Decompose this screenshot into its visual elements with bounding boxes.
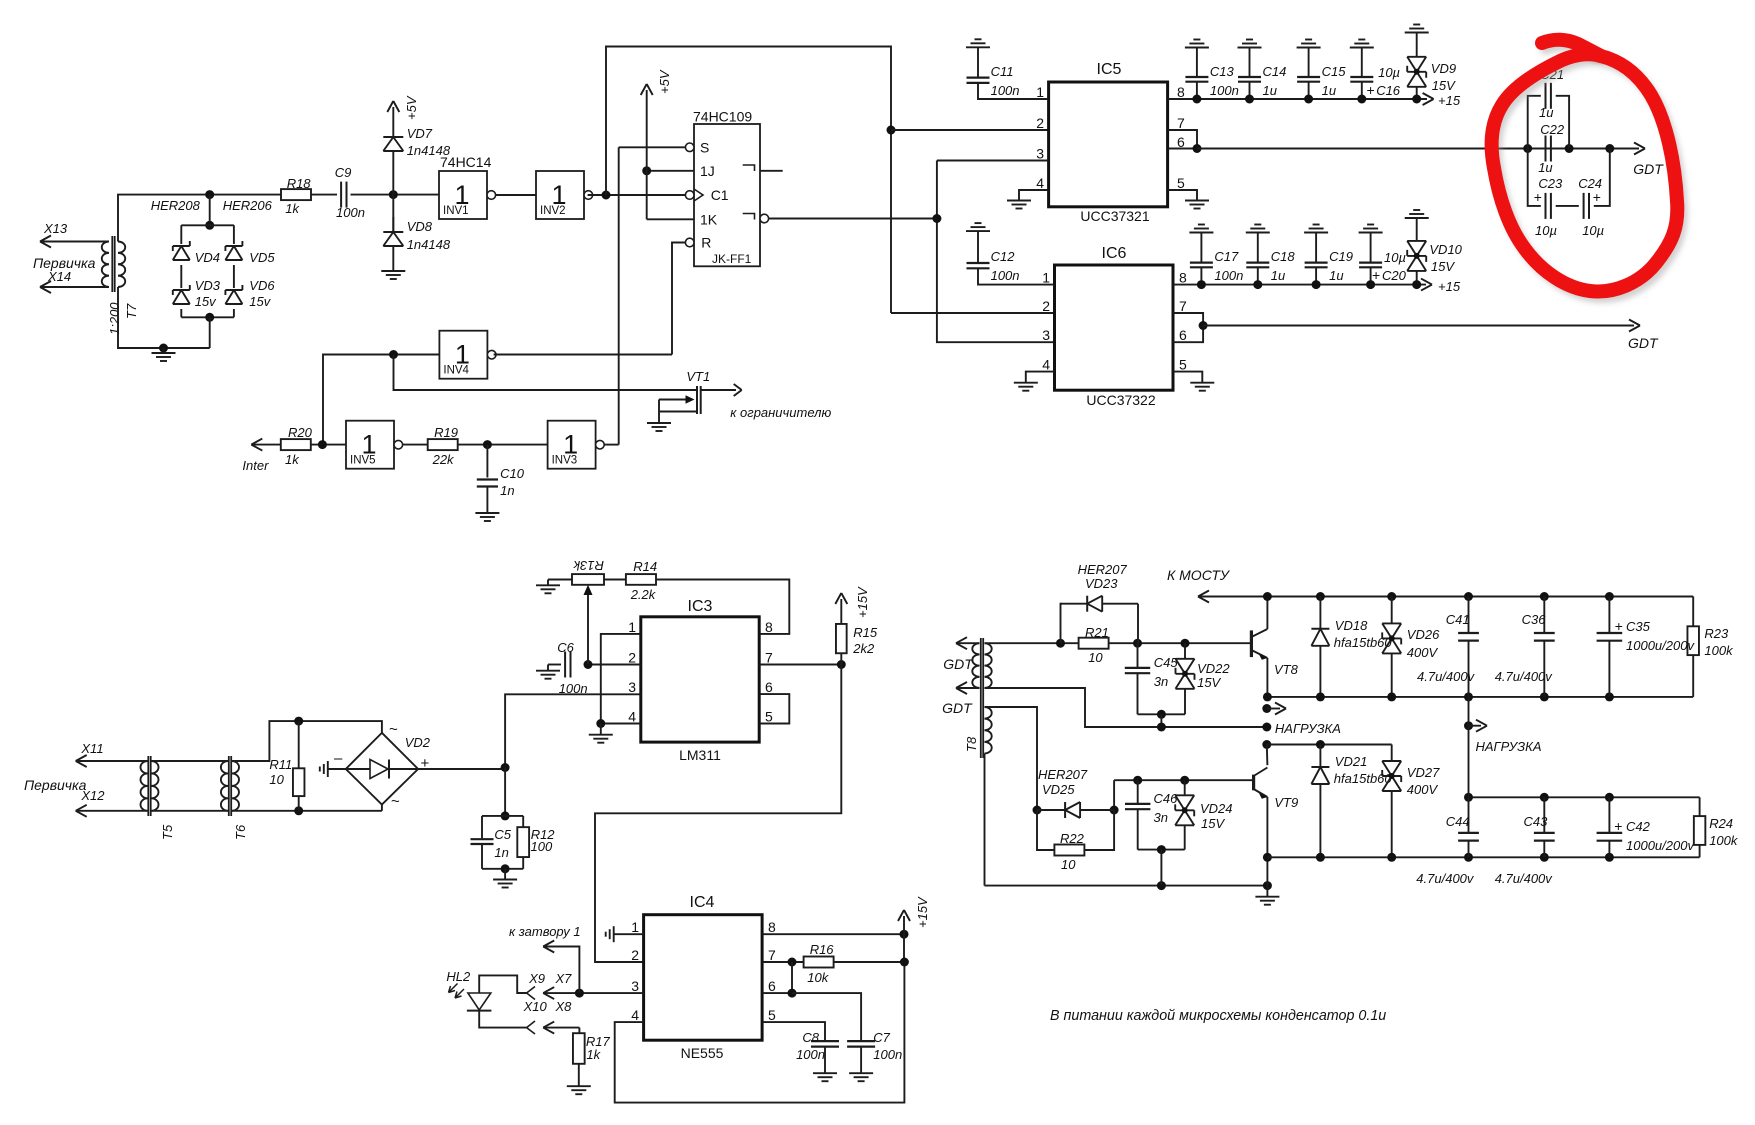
svg-text:INV4: INV4: [443, 365, 469, 377]
svg-text:400V: 400V: [1407, 645, 1439, 660]
svg-text:10µ: 10µ: [1384, 250, 1406, 265]
svg-text:C46: C46: [1154, 791, 1179, 806]
svg-text:T8: T8: [964, 736, 979, 752]
svg-text:+: +: [1614, 818, 1622, 834]
svg-text:1: 1: [1042, 270, 1050, 286]
svg-text:10k: 10k: [807, 970, 829, 985]
svg-text:C45: C45: [1154, 655, 1179, 670]
svg-text:R14: R14: [633, 559, 657, 574]
svg-text:6: 6: [768, 978, 776, 994]
svg-text:1: 1: [628, 619, 636, 635]
svg-text:100k: 100k: [1709, 833, 1739, 848]
svg-text:100: 100: [531, 839, 553, 854]
svg-text:22k: 22k: [432, 452, 455, 467]
svg-text:4: 4: [631, 1007, 639, 1023]
svg-text:VD27: VD27: [1407, 765, 1440, 780]
svg-text:400V: 400V: [1407, 782, 1439, 797]
svg-text:C15: C15: [1322, 64, 1347, 79]
svg-text:+: +: [1534, 189, 1542, 205]
svg-text:8: 8: [1177, 84, 1185, 100]
svg-text:7: 7: [765, 650, 773, 666]
svg-text:R11: R11: [269, 757, 292, 772]
svg-text:R16: R16: [810, 942, 835, 957]
svg-text:10: 10: [269, 772, 284, 787]
svg-text:C10: C10: [500, 466, 525, 481]
svg-text:3: 3: [631, 978, 639, 994]
svg-text:+: +: [1372, 267, 1380, 283]
svg-text:VD18: VD18: [1335, 618, 1368, 633]
svg-text:к затвору 1: к затвору 1: [509, 924, 581, 939]
svg-text:1u: 1u: [1329, 268, 1343, 283]
svg-text:S: S: [700, 139, 709, 155]
svg-text:VD23: VD23: [1085, 576, 1118, 591]
svg-text:1u: 1u: [1539, 105, 1553, 120]
svg-text:VD4: VD4: [195, 250, 220, 265]
svg-text:1000u/200v: 1000u/200v: [1626, 638, 1695, 653]
svg-text:X13: X13: [43, 221, 68, 236]
svg-text:VT9: VT9: [1274, 795, 1298, 810]
svg-text:1u: 1u: [1538, 160, 1552, 175]
svg-text:1u: 1u: [1322, 83, 1336, 98]
svg-text:–: –: [334, 750, 343, 767]
svg-text:R24: R24: [1709, 816, 1733, 831]
svg-text:VD2: VD2: [405, 735, 431, 750]
svg-text:VD10: VD10: [1429, 242, 1462, 257]
svg-text:2: 2: [631, 947, 639, 963]
svg-text:IC6: IC6: [1102, 245, 1127, 262]
svg-text:100n: 100n: [991, 268, 1020, 283]
svg-text:3n: 3n: [1154, 674, 1168, 689]
svg-text:2: 2: [1036, 115, 1044, 131]
svg-text:hfa15tb60: hfa15tb60: [1334, 771, 1393, 786]
svg-text:VD3: VD3: [195, 278, 221, 293]
svg-text:к ограничителю: к ограничителю: [730, 405, 831, 420]
svg-text:C42: C42: [1626, 819, 1651, 834]
svg-text:+15: +15: [1438, 93, 1461, 108]
svg-text:C35: C35: [1626, 619, 1651, 634]
svg-text:3: 3: [1042, 327, 1050, 343]
svg-text:+: +: [1615, 618, 1623, 634]
svg-text:R: R: [701, 235, 711, 251]
svg-text:7: 7: [768, 947, 776, 963]
svg-text:C11: C11: [991, 64, 1014, 79]
svg-text:INV3: INV3: [552, 455, 578, 467]
svg-text:10: 10: [1061, 857, 1076, 872]
svg-text:HER207: HER207: [1078, 562, 1128, 577]
svg-text:7: 7: [1179, 298, 1187, 314]
svg-text:C36: C36: [1522, 612, 1547, 627]
svg-text:4: 4: [1042, 357, 1050, 373]
svg-text:100n: 100n: [873, 1047, 902, 1062]
svg-text:3n: 3n: [1154, 810, 1168, 825]
svg-text:100n: 100n: [991, 83, 1020, 98]
svg-text:X12: X12: [80, 788, 105, 803]
svg-text:VD7: VD7: [407, 126, 433, 141]
svg-text:JK-FF1: JK-FF1: [712, 252, 752, 266]
svg-text:C44: C44: [1446, 814, 1470, 829]
svg-text:HER208: HER208: [151, 198, 201, 213]
svg-text:HL2: HL2: [446, 969, 471, 984]
svg-text:C7: C7: [873, 1030, 890, 1045]
svg-text:T5: T5: [160, 824, 175, 840]
svg-text:15V: 15V: [1201, 816, 1225, 831]
svg-text:+15V: +15V: [855, 586, 870, 618]
svg-text:+5V: +5V: [404, 95, 419, 120]
svg-text:3: 3: [628, 679, 636, 695]
svg-text:2: 2: [628, 650, 636, 666]
svg-text:C22: C22: [1540, 122, 1565, 137]
svg-text:C9: C9: [335, 165, 352, 180]
svg-text:X8: X8: [555, 999, 573, 1014]
svg-text:1000u/200v: 1000u/200v: [1626, 838, 1695, 853]
svg-text:C13: C13: [1210, 64, 1235, 79]
svg-text:1u: 1u: [1263, 83, 1277, 98]
svg-text:+15: +15: [1438, 279, 1461, 294]
svg-text:UCC37321: UCC37321: [1080, 208, 1149, 224]
svg-text:74HC109: 74HC109: [693, 109, 752, 125]
svg-text:X7: X7: [555, 971, 573, 986]
svg-text:НАГРУЗКА: НАГРУЗКА: [1476, 739, 1542, 754]
svg-text:C1: C1: [711, 187, 729, 203]
svg-text:НАГРУЗКА: НАГРУЗКА: [1275, 721, 1341, 736]
svg-text:+: +: [1367, 82, 1375, 98]
svg-text:VD6: VD6: [249, 278, 275, 293]
svg-text:HER206: HER206: [223, 198, 273, 213]
svg-text:Первичка: Первичка: [24, 777, 87, 793]
svg-text:C41: C41: [1446, 612, 1470, 627]
svg-text:2.2k: 2.2k: [630, 587, 657, 602]
svg-text:R21: R21: [1085, 625, 1109, 640]
svg-text:C14: C14: [1263, 64, 1287, 79]
svg-text:6: 6: [765, 679, 773, 695]
svg-text:1J: 1J: [700, 163, 715, 179]
svg-text:4.7u/400v: 4.7u/400v: [1495, 669, 1554, 684]
svg-text:T7: T7: [124, 303, 139, 319]
svg-text:15V: 15V: [1432, 78, 1456, 93]
svg-text:C18: C18: [1271, 249, 1296, 264]
svg-text:Inter: Inter: [242, 458, 269, 473]
svg-text:VD5: VD5: [249, 250, 275, 265]
svg-text:2: 2: [1042, 298, 1050, 314]
svg-text:IC4: IC4: [690, 894, 715, 911]
svg-text:8: 8: [1179, 270, 1187, 286]
svg-text:100n: 100n: [336, 205, 365, 220]
svg-text:INV2: INV2: [540, 205, 566, 217]
svg-text:GDT: GDT: [1628, 335, 1659, 351]
svg-text:X9: X9: [528, 971, 545, 986]
svg-text:В питании каждой микросхемы ко: В питании каждой микросхемы конденсатор …: [1050, 1008, 1386, 1024]
svg-text:R13k: R13k: [572, 558, 604, 573]
svg-text:HER207: HER207: [1038, 767, 1088, 782]
svg-text:R22: R22: [1060, 831, 1085, 846]
svg-text:1u: 1u: [1271, 268, 1285, 283]
svg-text:C43: C43: [1524, 814, 1549, 829]
svg-text:+15V: +15V: [915, 896, 930, 928]
svg-text:C20: C20: [1382, 268, 1407, 283]
svg-text:~: ~: [389, 721, 398, 738]
svg-text:hfa15tb60: hfa15tb60: [1334, 635, 1393, 650]
svg-text:100k: 100k: [1704, 643, 1734, 658]
svg-text:15v: 15v: [249, 294, 271, 309]
svg-text:8: 8: [765, 619, 773, 635]
svg-text:C16: C16: [1376, 83, 1401, 98]
svg-text:1n4148: 1n4148: [407, 237, 451, 252]
svg-text:100n: 100n: [1210, 83, 1239, 98]
svg-text:+: +: [1593, 189, 1601, 205]
svg-text:INV5: INV5: [350, 455, 376, 467]
svg-text:GDT: GDT: [943, 656, 974, 672]
svg-text:IC5: IC5: [1097, 61, 1122, 78]
svg-text:10µ: 10µ: [1378, 65, 1400, 80]
svg-text:15v: 15v: [195, 294, 217, 309]
svg-text:INV1: INV1: [443, 205, 469, 217]
svg-text:X11: X11: [80, 741, 103, 756]
svg-text:7: 7: [1177, 115, 1185, 131]
svg-text:4.7u/400v: 4.7u/400v: [1495, 871, 1554, 886]
svg-text:1n: 1n: [500, 483, 514, 498]
svg-text:R23: R23: [1704, 626, 1729, 641]
svg-text:C23: C23: [1538, 176, 1563, 191]
svg-text:100n: 100n: [796, 1047, 825, 1062]
svg-text:3: 3: [1036, 146, 1044, 162]
svg-text:15V: 15V: [1197, 675, 1221, 690]
svg-text:X10: X10: [523, 999, 548, 1014]
svg-text:15V: 15V: [1431, 259, 1455, 274]
svg-text:GDT: GDT: [1633, 161, 1664, 177]
svg-text:5: 5: [765, 709, 773, 725]
svg-text:R19: R19: [434, 425, 458, 440]
svg-text:C8: C8: [802, 1030, 819, 1045]
svg-text:5: 5: [1179, 357, 1187, 373]
svg-text:4.7u/400v: 4.7u/400v: [1416, 871, 1475, 886]
svg-text:VD22: VD22: [1197, 661, 1230, 676]
svg-text:T6: T6: [233, 824, 248, 840]
svg-text:4: 4: [628, 709, 636, 725]
svg-text:LM311: LM311: [679, 747, 721, 763]
svg-text:+5V: +5V: [657, 69, 672, 94]
svg-text:C6: C6: [557, 640, 574, 655]
svg-text:1: 1: [631, 919, 639, 935]
svg-text:8: 8: [768, 919, 776, 935]
svg-text:C19: C19: [1329, 249, 1353, 264]
svg-text:NE555: NE555: [681, 1045, 724, 1061]
svg-text:VD26: VD26: [1407, 627, 1440, 642]
svg-text:X14: X14: [47, 269, 71, 284]
svg-text:10: 10: [1088, 650, 1103, 665]
svg-text:R20: R20: [288, 425, 313, 440]
svg-text:C12: C12: [991, 249, 1016, 264]
svg-text:1:200: 1:200: [107, 302, 122, 335]
svg-text:UCC37322: UCC37322: [1086, 392, 1155, 408]
svg-text:VT8: VT8: [1274, 662, 1299, 677]
svg-text:C5: C5: [494, 827, 511, 842]
svg-text:74HC14: 74HC14: [440, 154, 492, 170]
svg-text:10µ: 10µ: [1582, 223, 1604, 238]
svg-text:~: ~: [391, 793, 400, 810]
svg-text:1k: 1k: [285, 201, 300, 216]
svg-text:1k: 1k: [586, 1047, 601, 1062]
svg-text:5: 5: [1177, 175, 1185, 191]
svg-text:GDT: GDT: [942, 700, 973, 716]
svg-text:5: 5: [768, 1007, 776, 1023]
svg-text:4.7u/400v: 4.7u/400v: [1417, 669, 1476, 684]
svg-text:VD24: VD24: [1200, 801, 1233, 816]
svg-text:VT1: VT1: [686, 369, 710, 384]
svg-text:VD8: VD8: [407, 219, 433, 234]
svg-text:1k: 1k: [285, 452, 300, 467]
svg-text:1K: 1K: [700, 211, 718, 227]
svg-text:IC3: IC3: [688, 598, 713, 615]
svg-text:К МОСТУ: К МОСТУ: [1167, 567, 1231, 583]
svg-text:VD25: VD25: [1042, 782, 1075, 797]
svg-text:4: 4: [1036, 175, 1044, 191]
svg-text:R18: R18: [287, 176, 312, 191]
svg-text:C17: C17: [1214, 249, 1239, 264]
svg-text:100n: 100n: [1214, 268, 1243, 283]
svg-text:VD21: VD21: [1335, 754, 1368, 769]
svg-text:1: 1: [1036, 84, 1044, 100]
svg-text:10µ: 10µ: [1535, 223, 1557, 238]
svg-text:2k2: 2k2: [852, 641, 875, 656]
svg-text:R15: R15: [853, 625, 878, 640]
svg-text:6: 6: [1179, 327, 1187, 343]
svg-text:VD9: VD9: [1431, 61, 1456, 76]
svg-text:1n: 1n: [494, 845, 508, 860]
